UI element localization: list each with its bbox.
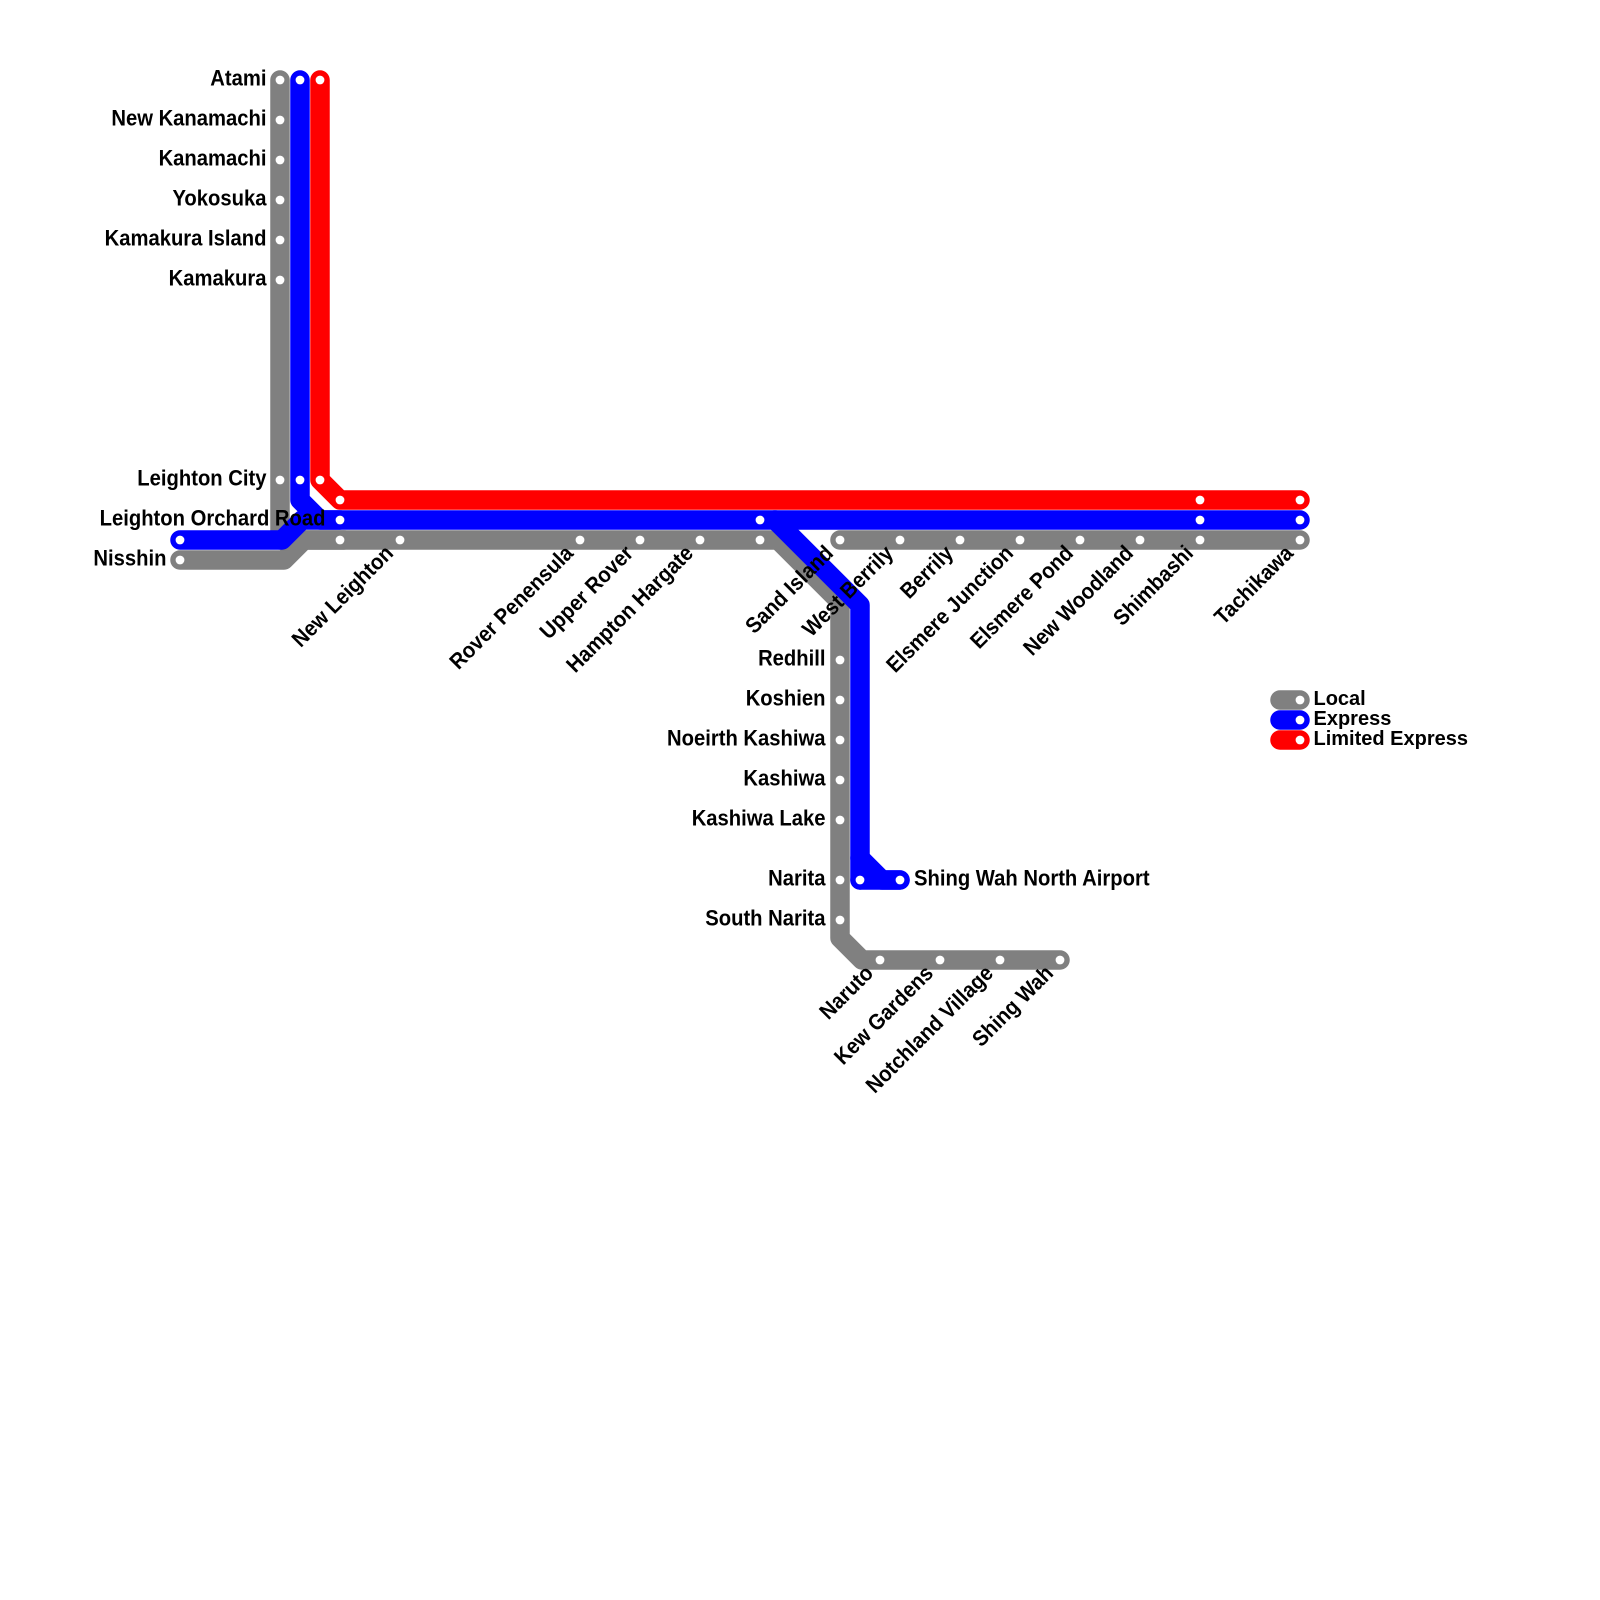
dots: Local gray west horizontal bbox=[336, 536, 345, 545]
svg-text:Noeirth Kashiwa: Noeirth Kashiwa bbox=[667, 727, 826, 751]
dots: Express blue bbox=[296, 76, 305, 85]
svg-text:Yokosuka: Yokosuka bbox=[172, 187, 266, 211]
svg-text:Nisshin: Nisshin bbox=[93, 547, 166, 571]
svg-text:Leighton Orchard Road: Leighton Orchard Road bbox=[100, 507, 326, 531]
svg-text:Kamakura: Kamakura bbox=[169, 267, 267, 291]
legend swatch Limited Express bbox=[1280, 730, 1300, 750]
svg-text:Kashiwa: Kashiwa bbox=[743, 767, 825, 791]
Limited Express line (red): Atami vertical and horizontal to Tachikawa bbox=[320, 80, 1300, 500]
svg-text:Koshien: Koshien bbox=[746, 687, 826, 711]
svg-text:Atami: Atami bbox=[210, 67, 266, 91]
svg-text:Leighton City: Leighton City bbox=[137, 467, 266, 491]
svg-text:Redhill: Redhill bbox=[758, 647, 825, 671]
legend swatch Express bbox=[1280, 710, 1300, 730]
Express line (blue) airport branch: Sand Island to Narita bbox=[775, 520, 860, 880]
Local line (gray) east horizontal to Tachikawa bbox=[840, 530, 1300, 550]
svg-text:Kamakura Island: Kamakura Island bbox=[105, 227, 267, 251]
station dots (white) bbox=[176, 76, 1305, 965]
svg-text:Limited Express: Limited Express bbox=[1314, 728, 1469, 750]
Express line (blue) main route: Atami vertical and horizontal to Tachikawa bbox=[300, 80, 1300, 520]
svg-text:Kashiwa Lake: Kashiwa Lake bbox=[692, 807, 826, 831]
svg-text:New Kanamachi: New Kanamachi bbox=[111, 107, 266, 131]
svg-text:Express: Express bbox=[1314, 708, 1392, 730]
Express line (blue) through chamfer to Shing Wah North Airport bbox=[860, 858, 900, 880]
svg-text:Kanamachi: Kanamachi bbox=[159, 147, 267, 171]
dots: Local gray south branch bbox=[836, 656, 845, 665]
Express line (blue) Narita-airport stub bbox=[860, 870, 900, 890]
svg-text:Shing Wah North Airport: Shing Wah North Airport bbox=[914, 867, 1150, 891]
dots: Local gray vertical section bbox=[276, 76, 285, 85]
Express line (blue) Nisshin spur bbox=[180, 520, 340, 540]
legend dots bbox=[1296, 696, 1305, 745]
legend swatch Local bbox=[1280, 690, 1300, 710]
svg-text:Local: Local bbox=[1314, 688, 1366, 710]
svg-text:Narita: Narita bbox=[768, 867, 826, 891]
Local line (gray) main route: Atami vertical, west horizontal, branch to Shing Wah bbox=[280, 80, 1060, 960]
Local line (gray) Nisshin spur bbox=[180, 540, 344, 560]
dots: Local gray east horizontal bbox=[836, 536, 845, 545]
svg-text:South Narita: South Narita bbox=[705, 907, 825, 931]
dots: Limited Express red bbox=[316, 76, 325, 85]
